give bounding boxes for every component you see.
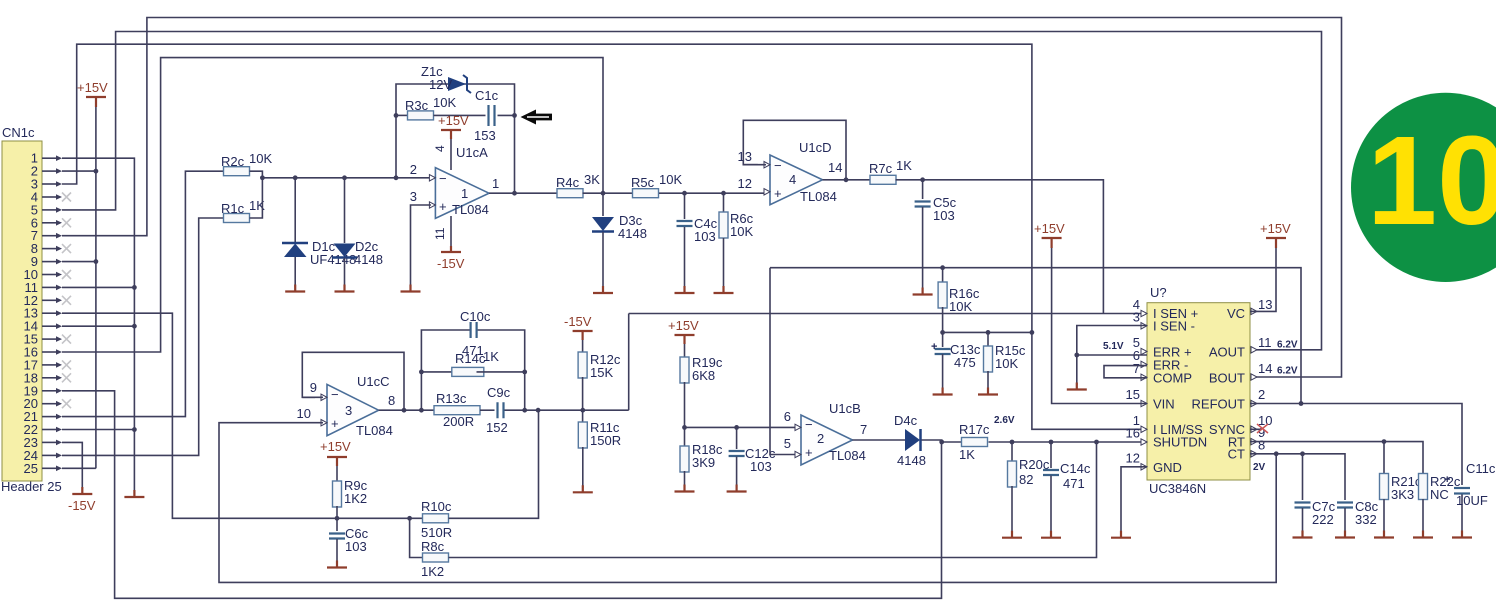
svg-text:3K3: 3K3 — [1391, 487, 1414, 502]
svg-text:BOUT: BOUT — [1209, 370, 1245, 385]
svg-text:3K9: 3K9 — [692, 455, 715, 470]
resistor R11c 150R — [578, 422, 587, 448]
junction R1c R2c — [260, 175, 265, 180]
svg-text:510R: 510R — [421, 525, 452, 540]
svg-text:12V: 12V — [429, 77, 452, 92]
svg-text:-15V: -15V — [437, 256, 465, 271]
svg-text:1K2: 1K2 — [344, 491, 367, 506]
junction REFOUT column — [1299, 401, 1304, 406]
ground bar header GND rail — [124, 490, 144, 497]
svg-text:3: 3 — [410, 189, 417, 204]
svg-text:U1cB: U1cB — [829, 401, 861, 416]
svg-text:10UF: 10UF — [1456, 493, 1488, 508]
svg-text:475: 475 — [954, 355, 976, 370]
svg-text:−: − — [805, 417, 813, 432]
svg-text:10K: 10K — [995, 356, 1018, 371]
wire pin19 bottom bus to D4c-R17c node — [62, 391, 942, 599]
op-amp U1cD TL084 — [770, 155, 823, 205]
svg-text:R13c: R13c — [436, 391, 467, 406]
junction pin11 GND — [132, 285, 137, 290]
svg-text:U?: U? — [1150, 285, 1167, 300]
svg-text:11: 11 — [1258, 335, 1272, 350]
capacitor C9c 152 — [498, 402, 504, 418]
junction R8c branch — [407, 516, 412, 521]
junction R14c right — [522, 370, 527, 375]
svg-text:10K: 10K — [433, 95, 456, 110]
op-amp U1cA TL084 — [435, 168, 489, 219]
svg-text:2: 2 — [1258, 387, 1265, 402]
junction R14c left — [419, 370, 424, 375]
svg-text:+15V: +15V — [1034, 221, 1065, 236]
junction D2c — [342, 175, 347, 180]
capacitor C11c 10UF polarized — [1454, 487, 1470, 489]
wire pin1 GND rail — [62, 158, 134, 491]
no-connect X at SYNC pin10 — [1250, 428, 1262, 430]
svg-text:TL084: TL084 — [829, 448, 866, 463]
wire R17c to SHUTDN pin16 — [989, 441, 1148, 443]
svg-text:+15V: +15V — [77, 80, 108, 95]
wire D4c to R17c — [922, 440, 942, 442]
wire R12c to R11c — [582, 377, 584, 423]
capacitor C7c 222 — [1302, 454, 1304, 500]
svg-text:10: 10 — [297, 406, 311, 421]
junction C12c top — [734, 425, 739, 430]
svg-text:SHUTDN: SHUTDN — [1153, 435, 1207, 450]
junction ILIM column — [1030, 330, 1035, 335]
junction divider node — [580, 408, 585, 413]
svg-text:NC: NC — [1430, 487, 1449, 502]
svg-text:1K: 1K — [959, 447, 975, 462]
wire R9c to C6c — [336, 506, 338, 531]
svg-text:C14c: C14c — [1060, 461, 1091, 476]
svg-text:+: + — [774, 186, 782, 201]
svg-text:+15V: +15V — [438, 113, 469, 128]
wire CT row to C8c — [1250, 454, 1345, 500]
svg-text:4: 4 — [789, 172, 796, 187]
wire pin25 to +15V rail — [62, 467, 96, 469]
resistor R14c 1K — [421, 371, 451, 373]
wire U1cC output — [379, 409, 434, 411]
svg-text:TL084: TL084 — [356, 423, 393, 438]
resistor R22c NC — [1419, 474, 1428, 500]
wire U1cD feedback loop — [743, 120, 846, 180]
ground bar R11c — [573, 485, 593, 492]
capacitor C8c 332 — [1337, 503, 1353, 508]
capacitor C4c 103 — [684, 193, 686, 219]
svg-text:3: 3 — [1133, 309, 1140, 324]
wire ERR+ 5.1V — [1077, 354, 1147, 356]
junction pin22 GND — [132, 427, 137, 432]
junction R15c top — [986, 330, 991, 335]
svg-text:C1c: C1c — [475, 88, 499, 103]
svg-text:−: − — [774, 158, 782, 173]
junction C14c top — [1049, 440, 1054, 445]
wire U1cC pin9 stub — [302, 396, 323, 398]
op-amp U1cC TL084 — [327, 384, 379, 435]
svg-text:TL084: TL084 — [800, 189, 837, 204]
junction D3c top — [601, 191, 606, 196]
svg-text:25: 25 — [24, 461, 38, 476]
annotation arrow at C1c — [521, 110, 553, 125]
svg-text:200R: 200R — [443, 414, 474, 429]
junction C10c rail left — [419, 408, 424, 413]
svg-text:R10c: R10c — [421, 499, 452, 514]
wire R4c to R5c — [583, 192, 633, 194]
ground bar R20c — [1002, 531, 1022, 538]
svg-text:332: 332 — [1355, 512, 1377, 527]
diode D1c UF4148 — [294, 178, 296, 242]
junction C7c top — [1300, 451, 1305, 456]
svg-text:10K: 10K — [249, 151, 272, 166]
svg-text:R3c: R3c — [405, 98, 429, 113]
svg-text:5.1V: 5.1V — [1103, 341, 1124, 352]
resistor R15c 10K — [987, 332, 989, 347]
svg-text:GND: GND — [1153, 460, 1182, 475]
ground bar D2c — [335, 285, 355, 292]
zener Z1c 12V — [448, 77, 466, 91]
junction R21c top — [1382, 439, 1387, 444]
wire C9c to divider node — [505, 409, 583, 411]
ground bar C8c — [1335, 531, 1355, 538]
svg-text:R5c: R5c — [631, 175, 655, 190]
svg-text:4148: 4148 — [897, 453, 926, 468]
wire R16c bottom node row — [943, 331, 1032, 333]
svg-text:I SEN -: I SEN - — [1153, 319, 1195, 334]
wire R2c to U1cA pin2 net — [250, 171, 263, 178]
resistor R10c 510R — [423, 514, 449, 523]
wire U1cB output to D4c — [853, 439, 906, 441]
svg-text:11: 11 — [433, 227, 447, 240]
ground bar R6c — [714, 286, 734, 293]
svg-text:103: 103 — [345, 539, 367, 554]
capacitor C6c 103 — [329, 534, 345, 539]
svg-text:15K: 15K — [590, 365, 613, 380]
svg-text:9: 9 — [310, 380, 317, 395]
svg-text:4: 4 — [433, 145, 447, 152]
svg-text:VC: VC — [1227, 306, 1245, 321]
svg-text:2.6V: 2.6V — [994, 415, 1015, 426]
svg-text:R2c: R2c — [221, 154, 245, 169]
svg-text:152: 152 — [486, 420, 508, 435]
svg-text:CN1c: CN1c — [2, 125, 35, 140]
wire pin5 to bus2 to U? AOUT pin11 — [62, 32, 1322, 350]
ground bar R15c — [978, 388, 998, 395]
svg-text:−: − — [439, 171, 447, 186]
power -15V U1cA pin11 — [450, 216, 452, 246]
junction R8c net — [1094, 440, 1099, 445]
wire ERR- to COMP loop — [1104, 366, 1147, 378]
svg-text:R14c: R14c — [455, 351, 486, 366]
junction U1cA pin2 node — [394, 175, 399, 180]
wire pin11 to GND rail — [62, 286, 134, 288]
ground bar D1c — [285, 285, 305, 292]
svg-text:+: + — [805, 445, 813, 460]
resistor R1c — [224, 214, 250, 223]
wire ISEN- jog — [1077, 326, 1147, 356]
junction C10c rail right — [522, 408, 527, 413]
ground bar C14c — [1041, 531, 1061, 538]
wire pin22 to GND rail — [62, 429, 134, 431]
wire pin7 to bus1 to U? BOUT pin14 — [62, 18, 1342, 378]
svg-text:R8c: R8c — [421, 539, 445, 554]
junction D1c — [293, 175, 298, 180]
resistor R13c 200R — [434, 406, 480, 415]
svg-text:4148: 4148 — [618, 226, 647, 241]
svg-text:AOUT: AOUT — [1209, 345, 1245, 360]
wire to R3c — [396, 114, 408, 116]
svg-text:150R: 150R — [590, 433, 621, 448]
svg-text:12: 12 — [1126, 450, 1140, 465]
svg-text:2V: 2V — [1253, 462, 1266, 473]
green badge circle with number 10 — [1351, 93, 1496, 282]
wire divider to U1cB pin6 — [685, 426, 798, 428]
ground bar R21c — [1374, 531, 1394, 538]
wire to R17c — [942, 441, 962, 443]
wire RT to R22c — [1250, 442, 1423, 474]
svg-text:1K: 1K — [896, 158, 912, 173]
wire pin23 to -15V — [62, 442, 82, 489]
ground bar C7c — [1293, 531, 1313, 538]
svg-text:D4c: D4c — [894, 413, 918, 428]
resistor R17c 1K — [962, 438, 988, 447]
resistor R19c 6K8 — [680, 357, 689, 383]
wire REFOUT to U1cB pin5 — [770, 268, 797, 455]
svg-text:8: 8 — [1258, 437, 1265, 452]
junction CT bottom bus — [1274, 451, 1279, 456]
svg-text:13: 13 — [738, 149, 752, 164]
svg-text:U1cC: U1cC — [357, 374, 390, 389]
diode D4c 4148 — [905, 429, 920, 451]
resistor R9c 1K2 — [333, 481, 342, 507]
wire pin14 to GND rail — [62, 325, 134, 327]
svg-text:R7c: R7c — [869, 161, 893, 176]
wire +15V to VIN pin15 — [1052, 248, 1147, 404]
wire GND pin12 — [1121, 467, 1147, 533]
ground bar D3c — [593, 286, 613, 293]
wire U1cA pin3 to ground — [411, 205, 432, 287]
junction C4c — [682, 191, 687, 196]
svg-text:R17c: R17c — [959, 422, 990, 437]
svg-text:UF4148: UF4148 — [310, 252, 356, 267]
svg-text:C10c: C10c — [460, 309, 491, 324]
svg-text:COMP: COMP — [1153, 370, 1192, 385]
junction R6c — [721, 191, 726, 196]
IC U? UC3846N — [1147, 303, 1250, 480]
svg-text:+15V: +15V — [320, 439, 351, 454]
junction U1cC feedback — [402, 408, 407, 413]
op-amp U1cB TL084 — [801, 415, 853, 465]
svg-text:5: 5 — [784, 436, 791, 451]
svg-text:103: 103 — [694, 229, 716, 244]
junction R3c left — [394, 113, 399, 118]
svg-text:103: 103 — [750, 459, 772, 474]
ground bar U1cA pin3 — [401, 285, 421, 292]
junction pin14 GND — [132, 324, 137, 329]
svg-text:VIN: VIN — [1153, 397, 1175, 412]
resistor R6c 10K — [723, 193, 725, 212]
wire REFOUT to C11c — [1250, 404, 1462, 486]
svg-text:6: 6 — [784, 409, 791, 424]
capacitor C14c 471 — [1050, 442, 1052, 468]
svg-text:1: 1 — [492, 176, 499, 191]
junction C1c right — [512, 113, 517, 118]
capacitor C1c 153 — [489, 105, 495, 126]
svg-text:1: 1 — [461, 186, 468, 201]
svg-text:+: + — [331, 416, 339, 431]
svg-text:6K8: 6K8 — [692, 368, 715, 383]
svg-text:TL084: TL084 — [452, 202, 489, 217]
resistor R8c 1K2 — [423, 553, 449, 562]
svg-text:U1cD: U1cD — [799, 140, 832, 155]
svg-text:10K: 10K — [949, 299, 972, 314]
svg-text:R1c: R1c — [221, 201, 245, 216]
resistor R21c 3K3 — [1383, 442, 1385, 474]
capacitor C5c 103 — [922, 180, 924, 199]
ground bar C11c — [1452, 531, 1472, 538]
svg-text:7: 7 — [860, 422, 867, 437]
wire ISEN+ row to U? pin4 — [629, 313, 1147, 315]
wire R10c right up to feedback row — [449, 410, 539, 518]
wire divider node to ISEN+ column — [583, 409, 629, 411]
capacitor C10c 471 — [421, 330, 469, 410]
ground bar R18c — [675, 485, 695, 492]
wire U1cD output — [823, 179, 871, 181]
junction R20c top — [1010, 440, 1015, 445]
svg-text:6.2V: 6.2V — [1277, 366, 1298, 377]
svg-text:+: + — [439, 199, 447, 214]
junction D4c R17c pin19 net — [939, 440, 944, 445]
svg-text:3: 3 — [345, 403, 352, 418]
svg-text:1K: 1K — [483, 349, 499, 364]
connector CN1c Header 25 — [2, 141, 42, 481]
svg-text:−: − — [331, 387, 339, 402]
wire U1cD pin13 stub — [743, 164, 766, 166]
svg-text:UC3846N: UC3846N — [1149, 481, 1206, 496]
svg-text:3K: 3K — [584, 172, 600, 187]
wire pin16 to bus4 to R4c-D3c node — [62, 58, 603, 352]
wire +15V rail down header — [95, 107, 97, 468]
resistor R18c 3K9 — [680, 446, 689, 472]
svg-text:+15V: +15V — [1260, 221, 1291, 236]
wire Z1c loop — [396, 84, 515, 193]
wire R7c to ISEN+ column — [896, 180, 1104, 314]
resistor R20c 82 — [1011, 442, 1013, 462]
wire R1c up to U1cA pin2 net — [250, 178, 263, 218]
wire R8c to SHUTDN net — [449, 442, 1097, 558]
wire U1cC pin10 bottom bus to CT — [219, 423, 1276, 583]
svg-text:10K: 10K — [730, 224, 753, 239]
svg-text:2: 2 — [817, 431, 824, 446]
svg-text:7: 7 — [1133, 361, 1140, 376]
svg-text:1K2: 1K2 — [421, 564, 444, 579]
svg-text:REFOUT: REFOUT — [1192, 397, 1246, 412]
svg-text:222: 222 — [1312, 512, 1334, 527]
wire U1cA out to R4c — [489, 192, 558, 194]
diode D3c 4148 — [602, 193, 604, 216]
junction C5c top — [920, 177, 925, 182]
svg-text:C11c: C11c — [1466, 461, 1496, 476]
resistor R12c 15K — [578, 352, 587, 378]
resistor R3c — [408, 111, 434, 120]
wire pin2 to +15V rail — [62, 170, 96, 172]
wire pin9 to +15V rail — [62, 261, 96, 263]
wire R13c to C9c — [480, 409, 495, 411]
junction R16c top — [940, 265, 945, 270]
svg-text:82: 82 — [1019, 472, 1033, 487]
wire C1c right — [498, 114, 515, 116]
resistor R2c — [224, 167, 250, 176]
junction U1cA output node — [512, 191, 517, 196]
svg-text:153: 153 — [474, 128, 496, 143]
ground bar C4c — [675, 286, 695, 293]
ground bar C5c — [913, 288, 933, 295]
svg-text:8: 8 — [388, 393, 395, 408]
resistor R7c — [870, 175, 896, 184]
ground bar R22c — [1413, 531, 1433, 538]
svg-text:+: + — [931, 341, 937, 353]
wire R3c to C1c — [434, 114, 486, 116]
junction pin9 +15V — [94, 259, 99, 264]
wire pin24 up to R1c — [62, 218, 224, 455]
svg-text:14: 14 — [828, 160, 842, 175]
wire R19c to R18c — [684, 382, 686, 447]
svg-text:CT: CT — [1228, 447, 1245, 462]
svg-text:+15V: +15V — [668, 318, 699, 333]
svg-text:14: 14 — [1258, 361, 1272, 376]
wire REFOUT net horizontal — [770, 268, 1301, 404]
junction U1cD feedback — [844, 177, 849, 182]
wire down to R8c — [410, 518, 423, 557]
svg-text:103: 103 — [933, 208, 955, 223]
svg-text:16: 16 — [1126, 426, 1140, 441]
junction C13c top — [940, 330, 945, 335]
ground bar C6c — [327, 561, 347, 568]
capacitor C12c 103 — [736, 427, 738, 449]
svg-text:U1cA: U1cA — [456, 145, 488, 160]
svg-text:10K: 10K — [659, 172, 682, 187]
wire to U1cA pin2 — [262, 177, 431, 179]
wire R5c to U1cD pin12 — [659, 192, 766, 194]
svg-text:C9c: C9c — [487, 385, 511, 400]
junction R10c column — [536, 408, 541, 413]
svg-text:6.2V: 6.2V — [1277, 340, 1298, 351]
svg-text:471: 471 — [1063, 476, 1085, 491]
junction R9c C6c — [335, 516, 340, 521]
svg-text:12: 12 — [738, 176, 752, 191]
reference bar 5.1V — [1067, 383, 1087, 390]
wire divider node up — [628, 314, 630, 411]
resistor R5c — [633, 189, 659, 198]
wire U1cC feedback loop — [302, 352, 404, 410]
svg-text:Header 25: Header 25 — [1, 479, 62, 494]
ground bar C13c — [933, 388, 953, 395]
svg-text:2: 2 — [410, 162, 417, 177]
svg-text:4148: 4148 — [354, 252, 383, 267]
svg-text:10: 10 — [1367, 110, 1496, 251]
wire +15V to VC pin13 — [1250, 248, 1276, 311]
svg-text:13: 13 — [1258, 297, 1272, 312]
ground bar C12c — [727, 485, 747, 492]
wire pin21 up to R2c — [62, 171, 224, 416]
svg-text:R4c: R4c — [556, 175, 580, 190]
wire pin13 down to R10c row — [62, 313, 423, 518]
junction R19c R18c — [682, 425, 687, 430]
svg-text:-15V: -15V — [68, 498, 96, 513]
resistor R16c 10K — [942, 268, 944, 283]
svg-text:15: 15 — [1126, 387, 1140, 402]
junction ERR+ ISEN- — [1074, 353, 1079, 358]
ground bar U? GND — [1111, 531, 1131, 538]
